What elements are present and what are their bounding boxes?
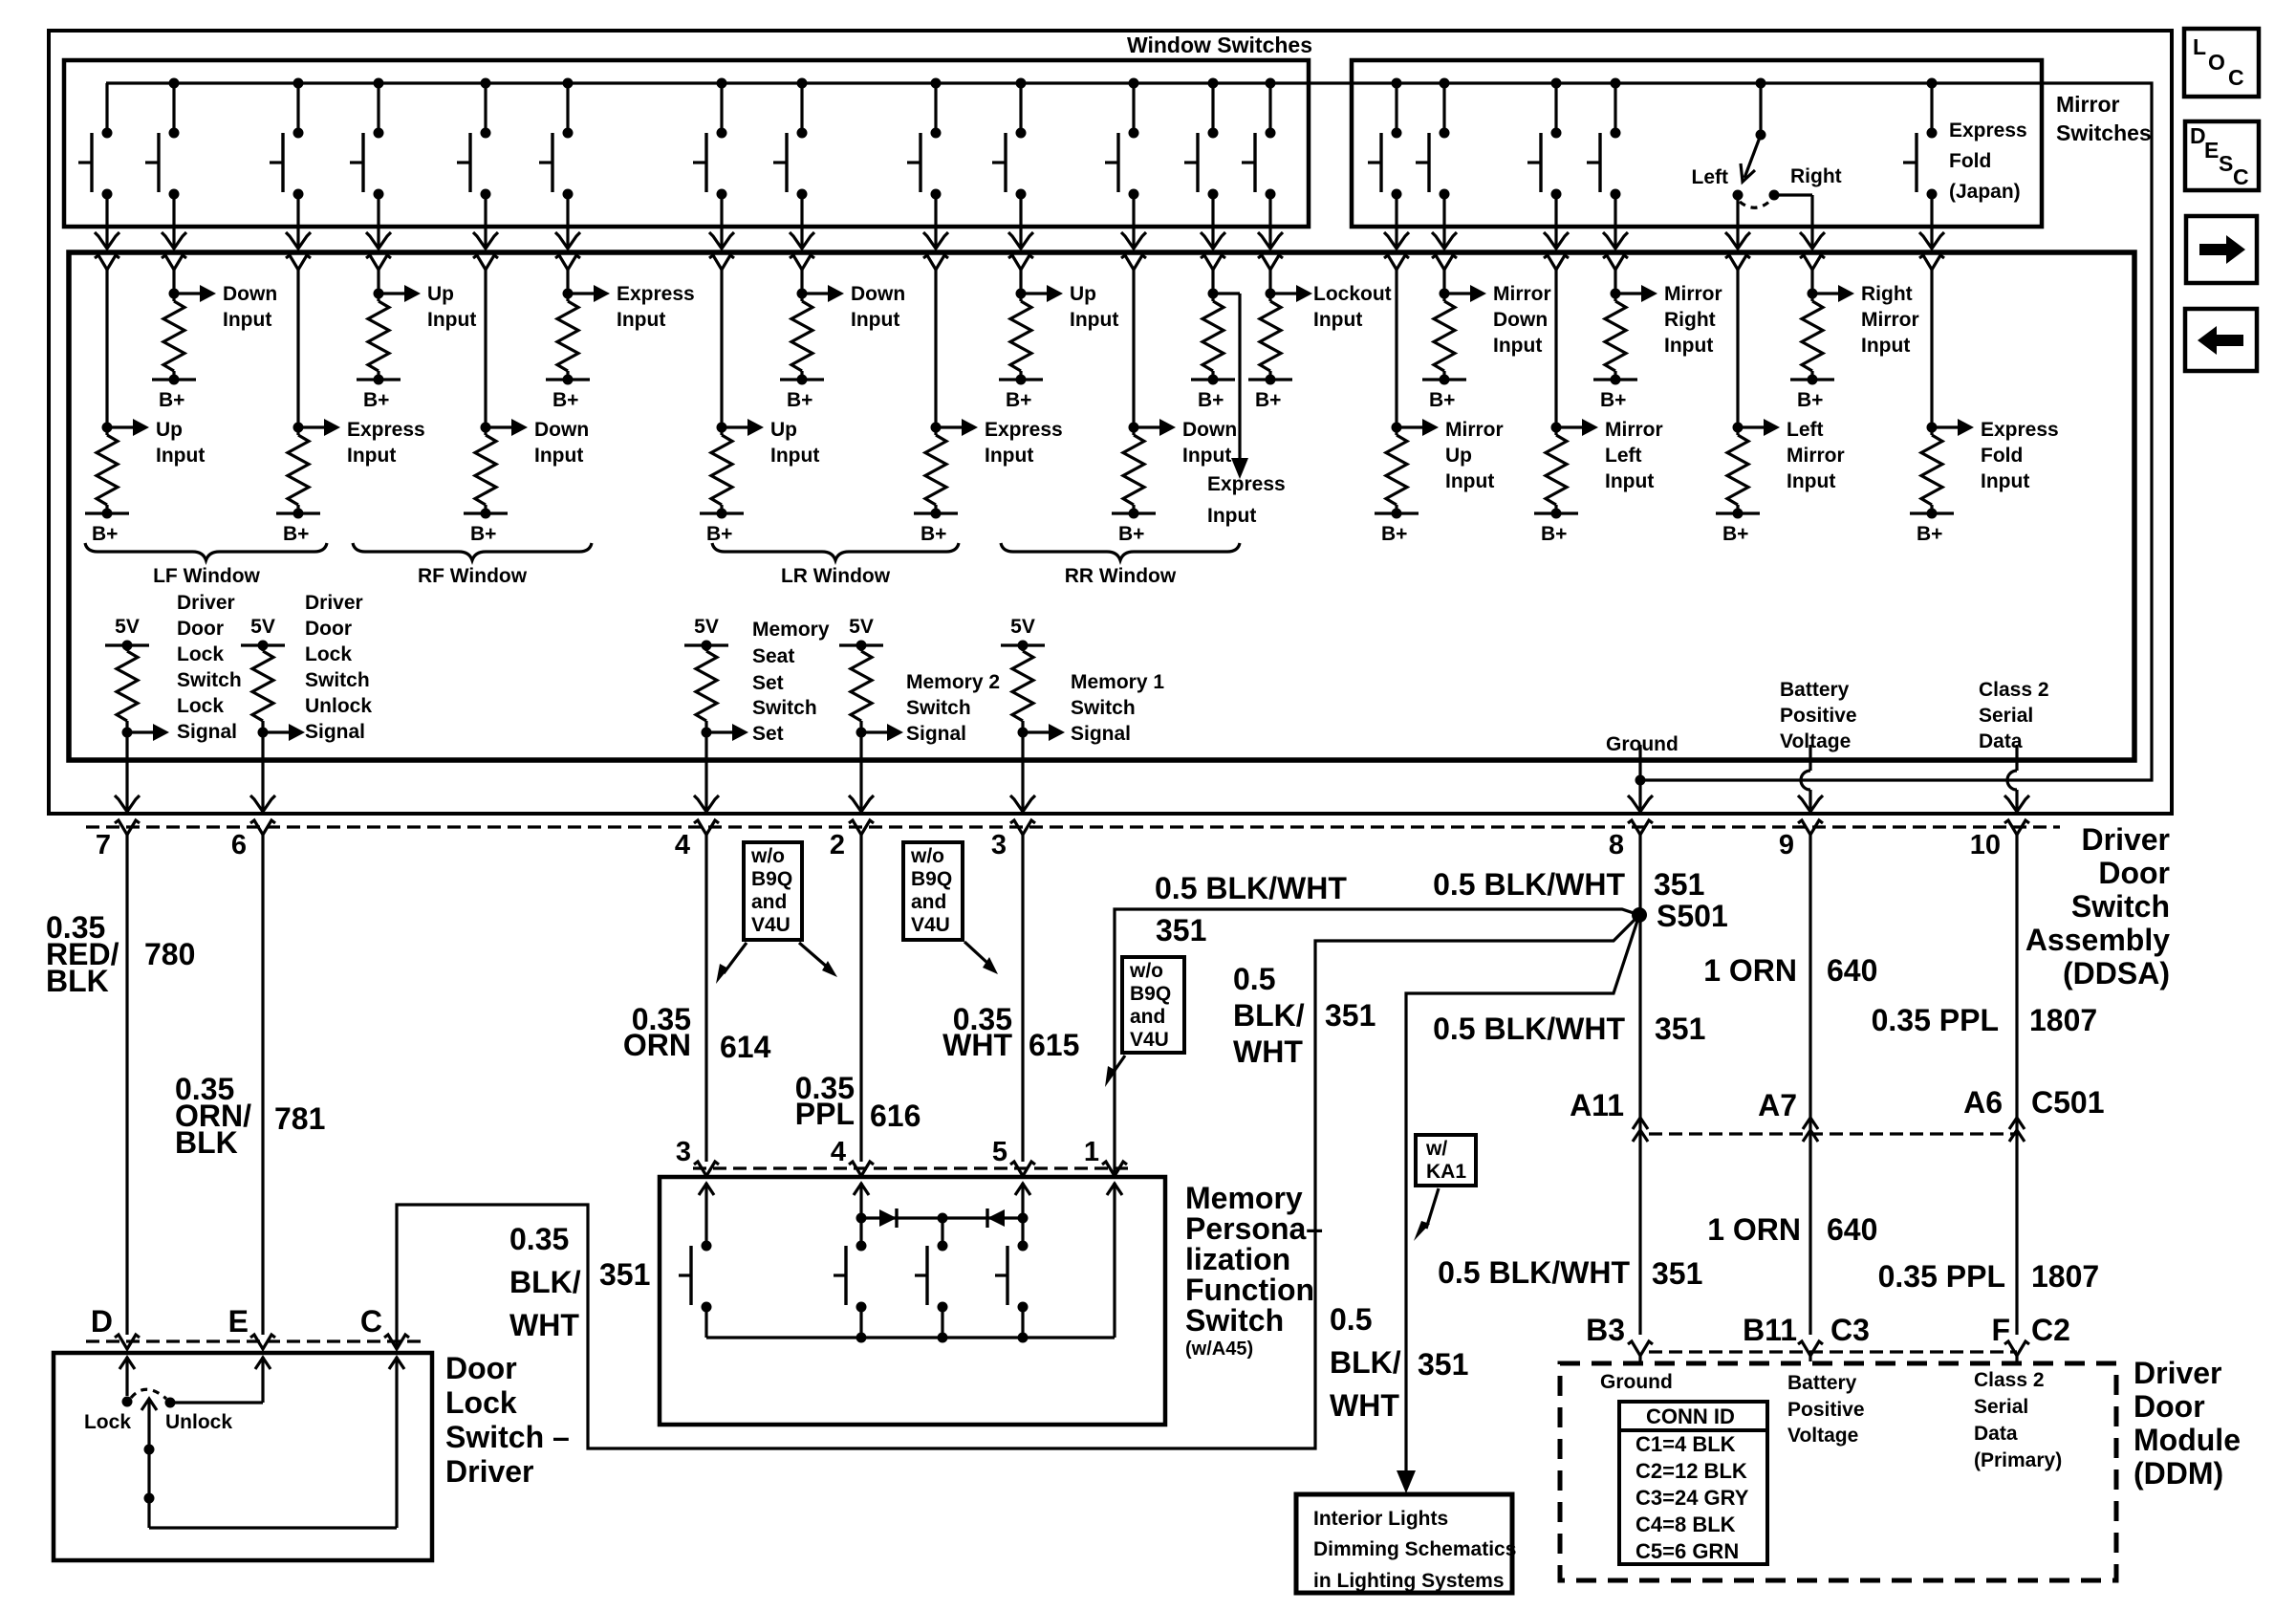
box: Door Lock Switch - Driver [54, 1353, 432, 1560]
option box: w/ KA1 [1416, 1135, 1476, 1186]
svg-text:Switches: Switches [2056, 120, 2152, 145]
switch: mirror right switch [1614, 83, 1616, 133]
B+ terminal (mirror right input) [1593, 378, 1637, 381]
B+ terminal (left mirror input) [1716, 512, 1760, 514]
svg-text:RR Window: RR Window [1065, 565, 1177, 587]
svg-text:Lockout: Lockout [1313, 283, 1392, 305]
svg-text:Switch: Switch [1185, 1303, 1284, 1338]
svg-text:Positive: Positive [1787, 1399, 1865, 1421]
svg-text:Input: Input [1182, 445, 1231, 467]
selector left contact [1733, 190, 1744, 201]
wire: circuit 614 (pin 4 to memory pin 3) [704, 835, 707, 1162]
svg-text:Driver: Driver [445, 1454, 534, 1489]
wire: circuit 615 (pin 3 to memory pin 5) [1021, 835, 1024, 1162]
box: Interior Lights Dimming Schematics in Lighting Systems [1296, 1494, 1512, 1593]
svg-text:0.5 BLK/WHT: 0.5 BLK/WHT [1433, 867, 1625, 902]
connector pin E (door lock switch) [250, 1335, 275, 1349]
B+ terminal (RR window up input) [999, 378, 1043, 381]
junction on bus (LR window down switch) [797, 78, 808, 89]
svg-text:L: L [2193, 34, 2206, 59]
wire: DDSA pin 4 exit [704, 760, 707, 813]
arrow from w/KA1 box to interior lights wire [1426, 1188, 1439, 1229]
box: Window Switches [64, 60, 1309, 227]
wire: RR express input jog with arrow [1213, 292, 1240, 294]
svg-text:5: 5 [992, 1137, 1007, 1167]
svg-text:Driver: Driver [2082, 822, 2171, 857]
svg-text:Dimming Schematics: Dimming Schematics [1313, 1538, 1516, 1560]
connector pin 4 (DDSA) [694, 820, 719, 835]
svg-text:V4U: V4U [1130, 1029, 1169, 1051]
switch: memory set switch [702, 1241, 712, 1252]
svg-text:Input: Input [1207, 505, 1256, 527]
resistor: LR window express input [923, 255, 948, 270]
svg-text:Mirror: Mirror [1787, 445, 1845, 467]
svg-text:Memory 2: Memory 2 [906, 671, 1000, 693]
svg-text:Door: Door [177, 618, 224, 640]
svg-text:0.5 BLK/WHT: 0.5 BLK/WHT [1155, 871, 1347, 905]
svg-text:Persona–: Persona– [1185, 1211, 1323, 1246]
svg-text:0.5 BLK/WHT: 0.5 BLK/WHT [1433, 1012, 1625, 1046]
svg-text:w/o: w/o [910, 845, 944, 867]
wire: circuit 1807 class 2 serial data (pin 10 to DDM F) [2015, 835, 2018, 1335]
svg-text:lization: lization [1185, 1242, 1290, 1276]
junction on bus (LF window express switch) [293, 78, 304, 89]
svg-text:8: 8 [1609, 830, 1624, 860]
wire: circuit 780 (pin 7 to door lock switch D) [125, 835, 128, 1335]
svg-text:Battery: Battery [1780, 679, 1850, 701]
svg-text:C501: C501 [2031, 1085, 2105, 1120]
svg-text:KA1: KA1 [1426, 1161, 1466, 1183]
svg-text:Express: Express [1207, 473, 1286, 495]
svg-text:B+: B+ [470, 523, 496, 545]
junction on bus (LF window down switch) [169, 78, 180, 89]
svg-text:E: E [2204, 138, 2219, 163]
svg-text:(DDSA): (DDSA) [2063, 956, 2170, 991]
svg-text:B+: B+ [363, 389, 389, 411]
svg-text:Down: Down [1182, 419, 1237, 441]
junction on bus (express fold switch) [1927, 78, 1938, 89]
svg-text:A11: A11 [1570, 1088, 1624, 1122]
svg-text:Left: Left [1692, 166, 1729, 188]
wire: circuit 616 (pin 2 to memory pin 4) [859, 835, 862, 1162]
svg-text:Input: Input [1605, 470, 1654, 492]
wire: S501 branch to interior lights dimming (circuit 351) [1406, 915, 1639, 1488]
svg-text:0.35 PPL: 0.35 PPL [1872, 1003, 1999, 1037]
svg-text:Fold: Fold [1981, 445, 2023, 467]
connector pin 9 (DDSA) [1798, 820, 1823, 835]
svg-text:Function: Function [1185, 1273, 1314, 1307]
legend box: back arrow [2185, 309, 2257, 371]
svg-text:C3: C3 [1830, 1313, 1870, 1347]
svg-text:0.35: 0.35 [509, 1222, 569, 1256]
svg-text:C: C [2233, 164, 2249, 189]
box: DDSA input-resistor block [69, 252, 2134, 760]
svg-text:Class 2: Class 2 [1974, 1369, 2045, 1391]
wire: C entry to lever common [389, 1358, 404, 1369]
B+ terminal (LF window up input) [85, 512, 129, 514]
resistor: RF window express input [555, 255, 580, 270]
B+ terminal (mirror left input) [1534, 512, 1578, 514]
svg-text:1807: 1807 [2029, 1003, 2097, 1037]
wire: circuit 351 pin 1 to splice S501 [1115, 909, 1639, 1175]
junction on lever common [144, 1493, 155, 1504]
svg-text:Switch: Switch [752, 697, 817, 719]
svg-text:B3: B3 [1586, 1313, 1625, 1347]
switch: mirror up switch [1395, 83, 1397, 133]
svg-text:(w/A45): (w/A45) [1185, 1339, 1253, 1360]
svg-text:and: and [911, 891, 946, 913]
svg-text:B+: B+ [1600, 389, 1626, 411]
svg-text:WHT: WHT [1330, 1388, 1399, 1423]
connector pin 3 (memory personalization switch) [694, 1162, 719, 1176]
svg-text:PPL: PPL [795, 1097, 855, 1131]
svg-text:Lock: Lock [177, 643, 224, 665]
switch: memory switch A [856, 1241, 867, 1252]
B+ terminal (mirror up input) [1375, 512, 1419, 514]
junction on bus (window lockout switch) [1266, 78, 1276, 89]
resistor: RF window down input [473, 255, 498, 270]
switch: RR window express switch [1211, 83, 1214, 133]
svg-text:B+: B+ [1797, 389, 1823, 411]
svg-text:5V: 5V [250, 616, 275, 638]
svg-text:Lock: Lock [305, 643, 352, 665]
svg-text:A7: A7 [1758, 1088, 1797, 1122]
svg-text:6: 6 [231, 830, 247, 860]
svg-text:Input: Input [223, 309, 271, 331]
svg-text:351: 351 [1654, 867, 1704, 902]
svg-text:351: 351 [1325, 998, 1375, 1033]
svg-text:(DDM): (DDM) [2134, 1456, 2223, 1491]
dashed connector line: door lock switch connector [86, 1339, 421, 1342]
svg-text:Assembly: Assembly [2025, 923, 2170, 957]
svg-text:Mirror: Mirror [1445, 419, 1504, 441]
svg-text:615: 615 [1029, 1028, 1079, 1062]
wire stub: battery positive inside DDSA [1809, 745, 1811, 760]
wire: DDSA pin 7 exit [125, 760, 128, 813]
svg-text:Lock: Lock [445, 1385, 517, 1420]
connector pin 8 (DDSA) [1628, 820, 1653, 835]
svg-text:B+: B+ [1429, 389, 1455, 411]
svg-text:Lock: Lock [84, 1411, 131, 1433]
svg-text:BLK: BLK [46, 964, 109, 998]
connector pin 10 (DDSA) [2004, 820, 2029, 835]
option box: w/o B9Q and V4U (1) [744, 842, 802, 940]
splice S501 [1632, 907, 1647, 923]
resistor: RR window up input [1008, 255, 1033, 270]
junction: ground rail to pin 8 wire [1635, 775, 1646, 786]
wire: circuit 351 ground (pin 8 to DDM B3) [1638, 835, 1641, 1335]
B+ terminal (LF window express input) [276, 512, 320, 514]
B+ terminal (RF window down input) [464, 512, 508, 514]
svg-text:Switch: Switch [305, 669, 370, 691]
svg-text:B+: B+ [787, 389, 812, 411]
wire stub: class 2 serial data inside DDSA [2015, 745, 2018, 760]
svg-text:B+: B+ [1541, 523, 1567, 545]
resistor: window lockout input [1258, 255, 1283, 270]
svg-text:351: 351 [599, 1257, 650, 1292]
wire: memory pin 4 entry [854, 1184, 869, 1195]
svg-text:CONN ID: CONN ID [1646, 1404, 1735, 1428]
svg-text:B+: B+ [921, 523, 946, 545]
resistor: LF window express input [286, 255, 311, 270]
svg-text:and: and [751, 891, 787, 913]
switch: mirror down switch [1442, 83, 1445, 133]
connector pin 5 (memory personalization switch) [1010, 1162, 1035, 1176]
resistor: mirror left input [1544, 255, 1569, 270]
B+ terminal (RF window up input) [357, 378, 401, 381]
svg-text:5V: 5V [849, 616, 874, 638]
svg-text:Input: Input [1981, 470, 2029, 492]
junction on bus (RF window up switch) [374, 78, 384, 89]
svg-text:B+: B+ [706, 523, 732, 545]
svg-text:w/o: w/o [1129, 960, 1163, 982]
switch: LR window down switch [800, 83, 803, 133]
wire: memory pin 5 entry [1015, 1184, 1030, 1195]
svg-text:Door: Door [2134, 1389, 2205, 1424]
svg-text:B9Q: B9Q [751, 868, 792, 890]
svg-text:Set: Set [752, 672, 784, 694]
svg-text:Serial: Serial [1979, 705, 2033, 727]
switch: LF window down switch [172, 83, 175, 133]
svg-text:Seat: Seat [752, 645, 794, 667]
svg-text:Lock: Lock [177, 695, 224, 717]
arrow from option box 1 to circuit 614 [724, 943, 747, 973]
diode D2 (memory) [987, 1209, 1005, 1227]
svg-text:Signal: Signal [1071, 723, 1131, 745]
svg-text:B+: B+ [1722, 523, 1748, 545]
resistor: RF window up input [366, 255, 391, 270]
svg-text:B+: B+ [1255, 389, 1281, 411]
svg-text:WHT: WHT [509, 1308, 579, 1342]
svg-text:0.5: 0.5 [1233, 962, 1275, 996]
svg-text:0.5 BLK/WHT: 0.5 BLK/WHT [1438, 1255, 1630, 1290]
svg-text:Ground: Ground [1606, 733, 1679, 755]
svg-text:Up: Up [427, 283, 454, 305]
box: Mirror Switches [1352, 60, 2042, 227]
svg-text:C2=12 BLK: C2=12 BLK [1635, 1459, 1747, 1483]
svg-text:D: D [91, 1304, 113, 1339]
svg-text:and: and [1130, 1006, 1165, 1028]
wire: D entry to lock contact [119, 1358, 135, 1369]
svg-text:Mirror: Mirror [1493, 283, 1551, 305]
svg-text:1 ORN: 1 ORN [1707, 1212, 1801, 1247]
svg-text:Set: Set [752, 723, 784, 745]
svg-text:Switch: Switch [177, 669, 242, 691]
svg-text:E: E [228, 1304, 249, 1339]
svg-text:B+: B+ [1006, 389, 1031, 411]
junction on bus (RF window down switch) [481, 78, 491, 89]
svg-text:Voltage: Voltage [1780, 730, 1851, 752]
junction on bus (mirror right switch) [1611, 78, 1621, 89]
switch: RR window down switch [1132, 83, 1135, 133]
svg-text:Input: Input [534, 445, 583, 467]
svg-text:781: 781 [274, 1101, 325, 1136]
svg-text:Input: Input [851, 309, 899, 331]
svg-text:Door: Door [2098, 856, 2170, 890]
resistor: LF window up input [95, 255, 119, 270]
svg-text:Class 2: Class 2 [1979, 679, 2049, 701]
svg-text:Memory: Memory [1185, 1181, 1303, 1215]
svg-text:BLK/: BLK/ [509, 1265, 581, 1299]
brace: RF Window group [353, 543, 592, 560]
svg-text:9: 9 [1779, 830, 1794, 860]
junction on bus (RR window up switch) [1016, 78, 1027, 89]
svg-text:1 ORN: 1 ORN [1703, 953, 1797, 988]
svg-text:B+: B+ [92, 523, 118, 545]
connector pin 4 (memory personalization switch) [849, 1162, 874, 1176]
svg-text:A6: A6 [1963, 1085, 2003, 1120]
switch: LF window express switch [296, 83, 299, 133]
junction on bus (LR window up switch) [717, 78, 727, 89]
wire: DDSA pin 10 exit [2015, 760, 2018, 771]
diode D1 (memory) [879, 1209, 897, 1227]
selector throw arc (dashed) [1740, 201, 1770, 207]
svg-text:Express: Express [1949, 120, 2027, 142]
svg-text:(Primary): (Primary) [1974, 1449, 2062, 1471]
door lock throw arc (dashed) [131, 1389, 166, 1399]
svg-text:B+: B+ [159, 389, 184, 411]
resistor: LF window down input [162, 255, 186, 270]
B+ terminal (LR window up input) [700, 512, 744, 514]
svg-text:BLK/: BLK/ [1330, 1345, 1401, 1380]
svg-text:3: 3 [676, 1137, 691, 1167]
svg-text:351: 351 [1652, 1256, 1702, 1291]
B+ terminal (LR window express input) [914, 512, 958, 514]
wire: diode bus to switch 3 [941, 1218, 943, 1244]
resistor: right mirror input [1800, 255, 1825, 270]
svg-text:Left: Left [1787, 419, 1824, 441]
B+ terminal (right mirror input) [1790, 378, 1834, 381]
svg-text:Fold: Fold [1949, 150, 1991, 172]
svg-text:Switch: Switch [1071, 697, 1136, 719]
wire: circuit 640 battery positive (pin 9 to DDM C3) [1809, 835, 1811, 1335]
outer box: Driver Door Switch Assembly (DDSA) [49, 31, 2172, 814]
junction on bus (mirror down switch) [1440, 78, 1450, 89]
box: Driver Door Module (DDM), dashed [1560, 1363, 2116, 1580]
junction on bus (RF window express switch) [563, 78, 574, 89]
junction on bus (LR window express switch) [931, 78, 942, 89]
switch: window lockout switch [1268, 83, 1271, 133]
resistor: mirror down input [1432, 255, 1457, 270]
B+ terminal (RF window express input) [546, 378, 590, 381]
svg-text:1807: 1807 [2031, 1259, 2099, 1294]
svg-text:RF Window: RF Window [418, 565, 528, 587]
svg-text:C3=24 GRY: C3=24 GRY [1635, 1486, 1749, 1510]
svg-text:ORN: ORN [623, 1028, 691, 1062]
svg-text:Input: Input [1664, 335, 1713, 357]
svg-text:Express: Express [985, 419, 1063, 441]
svg-text:B+: B+ [1118, 523, 1144, 545]
dashed connector line: memory personalization switch connector [693, 1166, 1128, 1169]
dashed connector line: DDM connector [1649, 1350, 2017, 1353]
wire: DDSA pin 3 exit [1021, 760, 1024, 813]
svg-text:Switch: Switch [906, 697, 971, 719]
svg-text:Interior Lights: Interior Lights [1313, 1508, 1448, 1530]
svg-text:Switch: Switch [2071, 889, 2170, 924]
svg-text:Input: Input [1493, 335, 1542, 357]
svg-text:Driver: Driver [2134, 1356, 2222, 1390]
svg-text:0.5: 0.5 [1330, 1302, 1372, 1337]
dashed connector line: DDSA bottom connector [86, 825, 2060, 828]
wire: E entry to unlock contact [255, 1358, 271, 1369]
switch: RR window up switch [1019, 83, 1022, 133]
svg-text:Positive: Positive [1780, 705, 1857, 727]
svg-text:S501: S501 [1657, 899, 1728, 933]
svg-text:O: O [2208, 50, 2225, 75]
resistor: LR window down input [790, 255, 814, 270]
svg-text:Input: Input [770, 445, 819, 467]
brace: RR Window group [1001, 543, 1240, 560]
svg-text:Down: Down [534, 419, 589, 441]
svg-text:Ground: Ground [1600, 1371, 1673, 1393]
svg-text:Express: Express [617, 283, 695, 305]
svg-text:Input: Input [1787, 470, 1835, 492]
svg-text:Input: Input [985, 445, 1033, 467]
connector pin 3 (DDSA) [1010, 820, 1035, 835]
svg-text:5V: 5V [1010, 616, 1035, 638]
wire: memory diode bus [861, 1216, 1023, 1219]
brace: LF Window group [85, 543, 327, 560]
svg-text:Express: Express [347, 419, 425, 441]
svg-text:Right: Right [1664, 309, 1716, 331]
connector pin 1 (memory personalization switch) [1102, 1162, 1127, 1176]
wire: memory pin 3 entry [699, 1184, 714, 1195]
legend box: LOC [2184, 29, 2259, 97]
switch: door lock lever [141, 1399, 157, 1410]
svg-text:B+: B+ [1381, 523, 1407, 545]
switch: RF window up switch [377, 83, 379, 133]
connector pin 6 (DDSA) [250, 820, 275, 835]
junction on bus (mirror up switch) [1392, 78, 1402, 89]
svg-text:Input: Input [156, 445, 205, 467]
switch: mirror left switch [1554, 83, 1557, 133]
switch: RF window down switch [484, 83, 487, 133]
svg-text:Door: Door [305, 618, 352, 640]
B+ terminal (LF window down input) [152, 378, 196, 381]
svg-text:BLK: BLK [175, 1125, 238, 1160]
svg-text:Up: Up [156, 419, 183, 441]
svg-text:Express: Express [1981, 419, 2059, 441]
svg-text:5V: 5V [115, 616, 140, 638]
svg-text:Input: Input [1070, 309, 1118, 331]
wire: B+ supply bus (top) with ground-rail return on right side [106, 83, 2152, 780]
svg-text:Driver: Driver [305, 592, 363, 614]
connector pin D (door lock switch) [115, 1335, 140, 1349]
resistor: mirror right input [1603, 255, 1628, 270]
svg-text:Right: Right [1790, 165, 1842, 187]
svg-text:Mirror: Mirror [1605, 419, 1663, 441]
svg-text:Right: Right [1861, 283, 1913, 305]
option box: w/o B9Q and V4U (3) [1122, 957, 1184, 1053]
resistor: mirror up input [1384, 255, 1409, 270]
svg-text:B+: B+ [1198, 389, 1224, 411]
svg-text:w/o: w/o [750, 845, 785, 867]
svg-text:3: 3 [991, 830, 1007, 860]
svg-text:Mirror: Mirror [1664, 283, 1722, 305]
svg-text:Input: Input [1313, 309, 1362, 331]
wire: memory pin 1 riser [1107, 1184, 1122, 1195]
switch: express fold switch [1930, 83, 1933, 133]
legend box: forward arrow [2186, 216, 2257, 283]
svg-text:S: S [2219, 151, 2233, 176]
svg-text:C: C [360, 1304, 382, 1339]
svg-text:LR Window: LR Window [781, 565, 891, 587]
switch: LF window up switch [105, 83, 108, 133]
svg-text:616: 616 [870, 1099, 921, 1133]
svg-text:Left: Left [1605, 445, 1642, 467]
junction on bus (mirror left switch) [1551, 78, 1562, 89]
svg-text:Signal: Signal [305, 721, 365, 743]
